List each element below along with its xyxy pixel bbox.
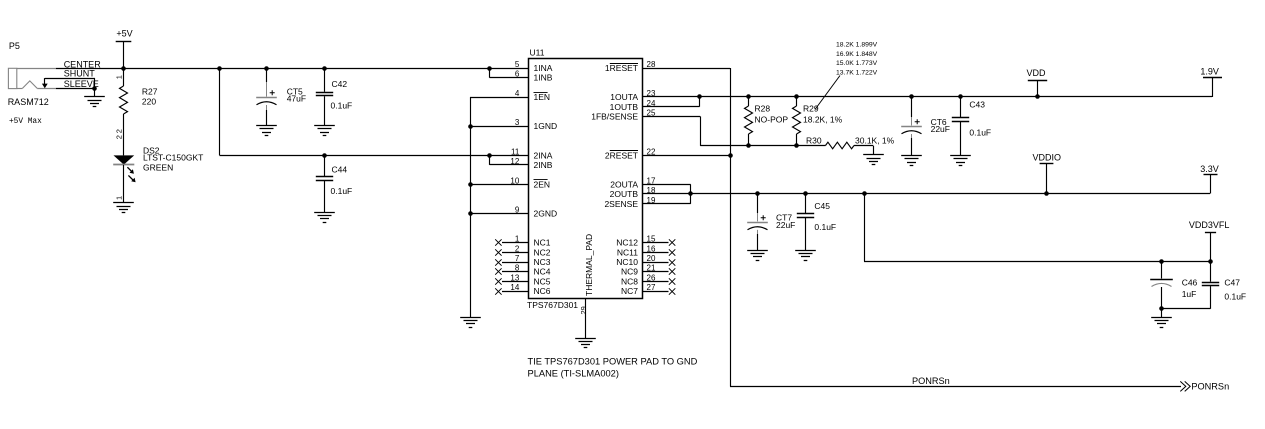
svg-text:2RESET: 2RESET xyxy=(605,150,638,160)
svg-text:R30: R30 xyxy=(806,135,822,145)
svg-text:C42: C42 xyxy=(332,79,348,89)
label C45 0.1uF xyxy=(814,201,836,232)
U11 pin 4 1EN (left) xyxy=(515,89,550,102)
U11 pin 10 2EN (left) xyxy=(510,176,550,189)
svg-text:3.3V: 3.3V xyxy=(1200,164,1219,174)
junction C43 xyxy=(958,94,963,99)
R27 pin 1 xyxy=(115,75,124,79)
resistor R29 xyxy=(793,94,801,148)
U11 pin 13 NC5 (left) xyxy=(510,273,550,286)
svg-text:0.1uF: 0.1uF xyxy=(1224,291,1246,301)
no-connect stub pin 27 xyxy=(642,288,675,294)
wire pin24 1OUTB xyxy=(642,97,700,107)
wire thermal pad to ground xyxy=(585,299,587,338)
pointer line to R29 xyxy=(815,76,840,110)
label R27 220 xyxy=(142,87,158,107)
svg-text:C46: C46 xyxy=(1182,278,1198,288)
svg-text:C43: C43 xyxy=(969,100,985,110)
label TPS767D301 xyxy=(527,300,578,310)
label 30.1K 1% xyxy=(855,136,895,146)
svg-text:1OUTB: 1OUTB xyxy=(610,102,639,112)
shunt arrow xyxy=(42,78,48,88)
junction VDD3VFL branch xyxy=(862,191,867,196)
wire DS2 to ground xyxy=(123,165,125,203)
U11 pin 20 NC10 (right) xyxy=(616,254,656,267)
ground (C42) xyxy=(314,126,335,136)
svg-text:1INB: 1INB xyxy=(534,73,553,83)
label R29 18.2K 1% xyxy=(803,104,843,125)
wire pin19 2SENSE xyxy=(642,194,691,204)
wire SLEEVE xyxy=(56,88,95,90)
junction C46 bottom xyxy=(1159,306,1164,311)
label U11 xyxy=(530,48,545,58)
capacitor C44 xyxy=(316,155,333,212)
ground (C43) xyxy=(950,156,971,166)
no-connect stub pin 13 xyxy=(495,278,529,284)
no-connect stub pin 7 xyxy=(495,259,529,265)
svg-text:9: 9 xyxy=(515,206,520,215)
U11 pin 6 1INB (left) xyxy=(515,70,553,83)
svg-text:+5V Max: +5V Max xyxy=(9,118,42,126)
label R28 NO-POP xyxy=(755,104,789,125)
wire to pin 4 (1EN) xyxy=(470,97,529,317)
no-connect stub pin 2 xyxy=(495,249,529,255)
junction reset net xyxy=(728,153,733,158)
svg-text:11: 11 xyxy=(511,147,520,156)
svg-text:1.9V: 1.9V xyxy=(1200,66,1219,76)
U11 pin 7 NC3 (left) xyxy=(515,254,551,267)
power 3.3V xyxy=(1200,164,1219,194)
R27 pin 2 xyxy=(115,129,124,133)
LED DS2 xyxy=(113,155,135,182)
svg-text:15.0K 1.773V: 15.0K 1.773V xyxy=(836,60,878,67)
svg-text:C45: C45 xyxy=(814,201,830,211)
junction pin17/18/19 xyxy=(688,191,693,196)
U11 pin 12 2INB (left) xyxy=(510,157,552,170)
wire sleeve to ground xyxy=(94,88,96,97)
junction C46 xyxy=(1159,259,1164,264)
U11 pin 22 2RESET (right) xyxy=(605,147,656,160)
junction C44 on rail2 xyxy=(322,153,327,158)
svg-text:PONRSn: PONRSn xyxy=(1191,382,1229,392)
node SHUNT xyxy=(64,69,96,79)
svg-text:5: 5 xyxy=(515,60,520,69)
no-connect stub pin 20 xyxy=(642,259,675,265)
wire pin28 1RESET xyxy=(642,68,731,387)
wire PONRSn xyxy=(730,386,1181,388)
svg-text:10: 10 xyxy=(510,176,519,185)
ground (CT5) xyxy=(256,126,277,136)
capacitor C46 xyxy=(1150,261,1173,308)
svg-text:C47: C47 xyxy=(1224,278,1240,288)
svg-text:13.7K 1.722V: 13.7K 1.722V xyxy=(836,70,878,77)
label C42 0.1uF xyxy=(331,79,353,111)
wire VDD3VFL rail xyxy=(864,194,1210,262)
svg-text:NO-POP: NO-POP xyxy=(755,114,789,124)
label CT6 22uF xyxy=(931,117,950,134)
svg-text:22uF: 22uF xyxy=(931,124,950,134)
ground (CT6) xyxy=(901,156,922,166)
svg-text:R27: R27 xyxy=(142,87,158,97)
no-connect stub pin 8 xyxy=(495,268,529,274)
no-connect stub pin 14 xyxy=(495,288,529,294)
no-connect stub pin 16 xyxy=(642,249,675,255)
svg-text:14: 14 xyxy=(510,283,519,292)
svg-text:C44: C44 xyxy=(332,164,348,174)
label PONRSn (net) xyxy=(912,376,950,386)
junction CT6 xyxy=(909,94,914,99)
svg-text:1FB/SENSE: 1FB/SENSE xyxy=(591,112,638,122)
capacitor CT7 xyxy=(747,194,768,251)
U11 pin 17 2OUTA (right) xyxy=(610,176,656,189)
junction pin6 branch xyxy=(487,66,492,71)
capacitor CT6 xyxy=(901,97,922,156)
label RASM712 xyxy=(8,97,49,107)
svg-text:22uF: 22uF xyxy=(776,220,795,230)
label C43 0.1uF xyxy=(969,100,991,138)
label C44 0.1uF xyxy=(331,164,353,196)
U11 pin 11 2INA (left) xyxy=(511,147,553,160)
svg-text:2GND: 2GND xyxy=(534,209,558,219)
svg-text:1uF: 1uF xyxy=(1182,289,1197,299)
label DS2 LTST-C150GKT GREEN xyxy=(143,145,203,172)
svg-text:NC11: NC11 xyxy=(617,247,638,257)
U11 pin 24 1OUTB (right) xyxy=(610,99,656,112)
label CT7 22uF xyxy=(776,212,795,229)
svg-text:2INB: 2INB xyxy=(534,160,553,170)
wire pin23 1OUTA / VDD rail xyxy=(642,96,1212,98)
no-connect stub pin 1 xyxy=(495,239,529,245)
DS2 pin 2 xyxy=(115,135,124,139)
power VDD xyxy=(1027,68,1048,99)
svg-text:27: 27 xyxy=(647,283,656,292)
junction +5V rail / R27 xyxy=(121,66,126,71)
svg-text:RASM712: RASM712 xyxy=(8,97,49,107)
power VDD3VFL xyxy=(1189,220,1230,261)
label C47 0.1uF xyxy=(1224,278,1246,302)
power 1.9V xyxy=(1200,66,1222,97)
svg-text:0.1uF: 0.1uF xyxy=(331,186,353,196)
svg-text:NC12: NC12 xyxy=(616,238,638,248)
DS2 pin 1 xyxy=(115,196,124,200)
svg-text:2: 2 xyxy=(115,129,124,133)
U11 pin 14 NC6 (left) xyxy=(510,283,550,296)
note TIE TPS767D301 POWER PAD TO GND PLANE xyxy=(528,356,698,378)
svg-text:1OUTA: 1OUTA xyxy=(610,92,638,102)
svg-text:THERMAL_PAD: THERMAL_PAD xyxy=(584,234,594,296)
no-connect stub pin 15 xyxy=(642,239,675,245)
junction CT5 xyxy=(264,66,269,71)
svg-text:NC6: NC6 xyxy=(534,286,551,296)
no-connect stub pin 21 xyxy=(642,268,675,274)
ground (CT7) xyxy=(747,251,768,261)
junction pin24 branch xyxy=(697,94,702,99)
U11 pin 21 NC9 (right) xyxy=(621,264,656,277)
svg-text:7: 7 xyxy=(515,254,520,263)
wire rail1 to rail2 xyxy=(220,68,530,156)
capacitor C45 xyxy=(797,194,814,251)
ground (EN/GND bus) xyxy=(460,318,481,328)
svg-text:1: 1 xyxy=(115,75,124,79)
svg-text:R29: R29 xyxy=(803,104,819,114)
U11 pin 8 NC4 (left) xyxy=(515,264,551,277)
svg-text:1: 1 xyxy=(115,196,124,200)
U11 thermal pad pin 29 xyxy=(579,306,588,314)
svg-text:28: 28 xyxy=(647,60,656,69)
junction rail1 x219 xyxy=(217,66,222,71)
U11 pin 28 1RESET (right) xyxy=(605,60,656,73)
svg-text:2SENSE: 2SENSE xyxy=(604,199,638,209)
svg-text:0.1uF: 0.1uF xyxy=(331,100,353,110)
power +5V xyxy=(116,28,133,68)
svg-text:16.9K 1.848V: 16.9K 1.848V xyxy=(836,51,878,58)
U11 pin 2 NC2 (left) xyxy=(515,244,551,257)
svg-text:+5V: +5V xyxy=(116,28,132,38)
U11 pin 27 NC7 (right) xyxy=(621,283,656,296)
label CT5 47uF xyxy=(287,87,306,104)
resistor R28 (NO-POP) xyxy=(745,94,753,148)
capacitor CT5 xyxy=(256,68,277,126)
wire SHUNT to SLEEVE xyxy=(45,78,95,88)
junction sleeve-gnd xyxy=(92,86,97,91)
U11 pin 15 NC12 (right) xyxy=(616,235,656,248)
U11 pin 3 1GND (left) xyxy=(515,118,557,131)
svg-text:VDDIO: VDDIO xyxy=(1033,152,1062,162)
wire to pin 12 xyxy=(490,155,530,165)
svg-text:NC4: NC4 xyxy=(534,267,551,277)
U11 pin 16 NC11 (right) xyxy=(617,244,656,257)
svg-text:P5: P5 xyxy=(9,41,20,51)
U11 pin 5 1INA (left) xyxy=(515,60,553,73)
svg-text:NC5: NC5 xyxy=(534,276,551,286)
wire pin25 1FB/SENSE xyxy=(642,116,826,145)
ground (DS2) xyxy=(113,203,134,213)
svg-text:LTST-C150GKT: LTST-C150GKT xyxy=(143,153,203,163)
U11 pin 25 1FB/SENSE (right) xyxy=(591,109,656,122)
svg-text:2INA: 2INA xyxy=(534,150,553,160)
svg-text:1RESET: 1RESET xyxy=(605,63,638,73)
svg-text:TIE TPS767D301 POWER PAD TO GN: TIE TPS767D301 POWER PAD TO GND xyxy=(528,356,698,366)
capacitor C43 xyxy=(952,97,969,156)
power VDDIO xyxy=(1033,152,1062,195)
junction pin12 branch xyxy=(487,153,492,158)
label R30 xyxy=(806,135,822,145)
wire to pin 9 (2GND) xyxy=(468,211,529,216)
svg-text:TPS767D301: TPS767D301 xyxy=(527,300,578,310)
svg-text:NC3: NC3 xyxy=(534,257,551,267)
U11 pin 18 2OUTB (right) xyxy=(610,186,656,199)
svg-text:NC8: NC8 xyxy=(621,276,638,286)
U11 pin 1 NC1 (left) xyxy=(515,235,551,248)
svg-text:220: 220 xyxy=(142,97,156,107)
svg-text:30.1K, 1%: 30.1K, 1% xyxy=(855,136,895,146)
svg-text:3: 3 xyxy=(515,118,520,127)
U11 pin 9 2GND (left) xyxy=(515,206,557,219)
connector P5 (RASM712 barrel jack body) xyxy=(8,68,56,88)
capacitor C47 xyxy=(1162,261,1219,308)
junction C45 xyxy=(803,191,808,196)
op-amp U11 TPS767D301 body xyxy=(529,59,643,299)
wire to pin 6 xyxy=(490,68,530,78)
svg-text:NC2: NC2 xyxy=(534,247,551,257)
svg-text:6: 6 xyxy=(515,70,520,79)
label C46 1uF xyxy=(1182,278,1198,300)
svg-text:1INA: 1INA xyxy=(534,63,553,73)
junction CT7 xyxy=(755,191,760,196)
ground (sleeve) xyxy=(84,97,105,107)
svg-text:2EN: 2EN xyxy=(534,179,551,189)
svg-text:NC7: NC7 xyxy=(621,286,638,296)
off-page connector PONRSn xyxy=(1180,381,1229,391)
svg-text:47uF: 47uF xyxy=(287,94,306,104)
svg-text:0.1uF: 0.1uF xyxy=(969,127,991,137)
svg-text:NC1: NC1 xyxy=(534,238,551,248)
resistor R27 xyxy=(120,68,128,155)
svg-text:R28: R28 xyxy=(755,104,771,114)
capacitor C42 xyxy=(316,68,333,126)
U11 pin 26 NC8 (right) xyxy=(621,273,656,286)
svg-text:29: 29 xyxy=(579,306,588,314)
svg-text:12: 12 xyxy=(510,157,519,166)
svg-text:VDD3VFL: VDD3VFL xyxy=(1189,220,1230,230)
svg-text:1EN: 1EN xyxy=(534,92,551,102)
wire to pin 10 (2EN) xyxy=(468,182,529,187)
U11 THERMAL_PAD label xyxy=(584,234,594,296)
svg-text:0.1uF: 0.1uF xyxy=(814,222,836,232)
node CENTER xyxy=(64,59,102,69)
svg-text:18.2K, 1%: 18.2K, 1% xyxy=(803,114,843,124)
svg-text:20: 20 xyxy=(647,254,656,263)
ground (thermal pad) xyxy=(575,339,596,348)
junction C47 top xyxy=(1208,259,1213,264)
wire pin22 2RESET xyxy=(642,155,730,157)
wire pin17 2OUTA xyxy=(642,184,691,193)
wire pin18 2OUTB / VDDIO rail xyxy=(642,193,1210,195)
svg-text:NC9: NC9 xyxy=(621,267,638,277)
svg-text:U11: U11 xyxy=(530,48,545,58)
resistor R30 xyxy=(826,142,874,155)
U11 pin 23 1OUTA (right) xyxy=(610,89,656,102)
ground (C45) xyxy=(795,251,816,261)
svg-text:18.2K 1.899V: 18.2K 1.899V xyxy=(836,42,878,49)
svg-text:NC10: NC10 xyxy=(616,257,638,267)
node SLEEVE xyxy=(64,79,99,89)
svg-text:PLANE (TI-SLMA002): PLANE (TI-SLMA002) xyxy=(528,368,619,378)
ground (C44) xyxy=(314,213,335,223)
label P5 xyxy=(9,41,20,51)
svg-text:2OUTA: 2OUTA xyxy=(610,179,638,189)
svg-text:SHUNT: SHUNT xyxy=(64,69,96,79)
svg-text:2OUTB: 2OUTB xyxy=(610,189,639,199)
wire C46 to ground xyxy=(1161,309,1163,318)
wire CENTER to +5V rail xyxy=(56,68,529,70)
wire to pin 3 (1GND) xyxy=(468,124,529,129)
svg-text:VDD: VDD xyxy=(1027,68,1047,78)
label +5V Max xyxy=(9,118,42,126)
ground (R30) xyxy=(863,155,884,165)
svg-text:GREEN: GREEN xyxy=(143,162,173,172)
svg-text:PONRSn: PONRSn xyxy=(912,376,950,386)
svg-text:4: 4 xyxy=(515,89,520,98)
ground (C46) xyxy=(1151,318,1172,328)
U11 pin 19 2SENSE (right) xyxy=(604,196,655,209)
voltage option table xyxy=(836,42,878,77)
no-connect stub pin 26 xyxy=(642,278,675,284)
svg-text:1GND: 1GND xyxy=(534,121,558,131)
svg-text:2: 2 xyxy=(115,135,124,139)
junction C42 xyxy=(322,66,327,71)
